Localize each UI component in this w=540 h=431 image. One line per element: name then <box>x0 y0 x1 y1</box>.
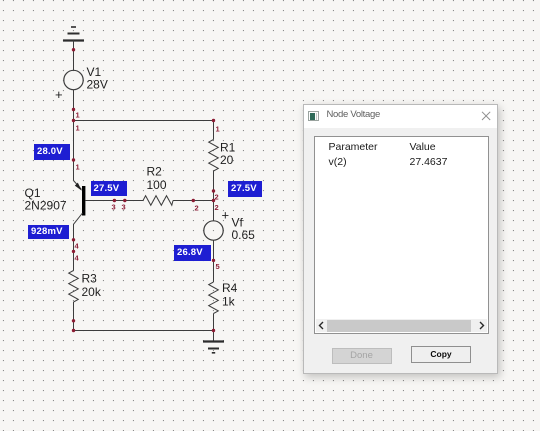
svg-text:+: + <box>55 87 63 102</box>
node dot wire above V1 <box>72 48 75 51</box>
svg-text:1k: 1k <box>222 295 236 309</box>
wire bottom horizontal <box>74 330 214 332</box>
node dot 5 <box>212 259 215 262</box>
junction node 1 right <box>212 119 215 122</box>
column header Parameter <box>329 141 378 153</box>
red net number labels <box>75 111 220 272</box>
svg-text:R3: R3 <box>82 272 98 286</box>
svg-text:20: 20 <box>220 153 234 167</box>
junction bottom left corner <box>72 329 75 332</box>
svg-text:20k: 20k <box>82 285 102 299</box>
svg-text:2: 2 <box>215 203 219 212</box>
wire base Q1 to R2 <box>85 200 143 202</box>
node dot 1a <box>72 108 75 111</box>
column header Value <box>410 141 436 153</box>
button Copy (default) <box>411 346 471 363</box>
wire V1 bottom to emitter <box>73 90 75 181</box>
svg-text:5: 5 <box>216 262 220 271</box>
wire R3 bottom to corner <box>73 302 75 331</box>
wire R2 to node 2 <box>173 200 214 202</box>
resistor R4 zigzag <box>209 282 219 314</box>
node dot 2 on rail <box>212 189 215 192</box>
voltage probe label 28.0V <box>34 144 70 160</box>
scrollbar left arrow <box>317 321 326 330</box>
wire Vf bottom to R4 <box>213 240 215 282</box>
scrollbar right arrow <box>477 321 486 330</box>
node dot 4b <box>72 250 75 253</box>
svg-text:100: 100 <box>147 178 167 192</box>
transistor Q1 collector diagonal <box>74 213 83 224</box>
ground (top, V1 negative) <box>63 27 84 41</box>
node dot 3b <box>123 199 126 202</box>
resistor R1 zigzag <box>209 140 219 172</box>
voltage probe label 26.8V <box>174 245 211 261</box>
node junction dots (red) <box>72 48 215 332</box>
transistor Q1 emitter diagonal <box>74 181 82 190</box>
dialog icon <box>308 111 319 121</box>
dialog Node Voltage <box>303 104 498 374</box>
voltage probe label 928mV <box>28 225 69 240</box>
voltage probe label 27.5V (base) <box>91 181 128 196</box>
node dot 2 on base wire <box>192 199 195 202</box>
resistor R3 zigzag <box>69 271 79 303</box>
svg-text:2: 2 <box>195 204 199 213</box>
svg-text:3: 3 <box>122 203 126 212</box>
svg-text:R2: R2 <box>147 165 163 179</box>
wire collector down to R3 <box>73 224 75 271</box>
node dot 4a <box>72 238 75 241</box>
svg-text:2N2907: 2N2907 <box>25 199 67 213</box>
svg-text:0.65: 0.65 <box>232 228 256 242</box>
wire R1 bottom to node 2 <box>213 171 215 201</box>
svg-text:1: 1 <box>216 125 220 134</box>
wire node1 to R1 top <box>213 121 215 140</box>
dialog title text <box>327 109 380 120</box>
svg-text:1: 1 <box>76 163 80 172</box>
junction node 2 <box>212 199 215 202</box>
wire to ground bottom <box>213 331 215 342</box>
wire node 1 horizontal top <box>74 120 214 122</box>
resistor R2 zigzag <box>143 196 173 206</box>
row value 27.4637 <box>410 156 448 168</box>
voltage source V1 circle <box>64 70 83 89</box>
transistor Q1 emitter arrow <box>75 183 82 191</box>
voltage probe label 27.5V (node 2) <box>228 181 262 197</box>
horizontal scrollbar <box>316 319 487 332</box>
transistor Q1 bar <box>82 186 85 216</box>
svg-text:1: 1 <box>76 111 80 120</box>
dialog title bar <box>304 105 497 128</box>
list panel <box>314 136 489 334</box>
voltage source Vf circle <box>204 221 223 240</box>
svg-text:2: 2 <box>215 193 219 202</box>
svg-text:3: 3 <box>112 203 116 212</box>
button Done (disabled) <box>332 348 392 364</box>
svg-text:1: 1 <box>76 124 80 133</box>
svg-text:+: + <box>222 208 230 223</box>
node dot 1c <box>72 158 75 161</box>
wire R4 bottom to ground <box>213 314 215 331</box>
black component labels <box>25 65 256 309</box>
wire ground to V1 top <box>73 41 75 71</box>
svg-text:R4: R4 <box>222 281 238 295</box>
node dot 3a <box>113 199 116 202</box>
junction bottom right <box>212 329 215 332</box>
node dot above corner <box>72 319 75 322</box>
dialog close X <box>480 109 492 121</box>
ground (bottom) <box>203 342 224 353</box>
row v(2) <box>329 156 347 168</box>
wire node 2 to Vf top <box>213 201 215 222</box>
scrollbar thumb <box>327 320 471 332</box>
svg-text:28V: 28V <box>87 78 108 92</box>
junction node 1 left <box>72 119 75 122</box>
